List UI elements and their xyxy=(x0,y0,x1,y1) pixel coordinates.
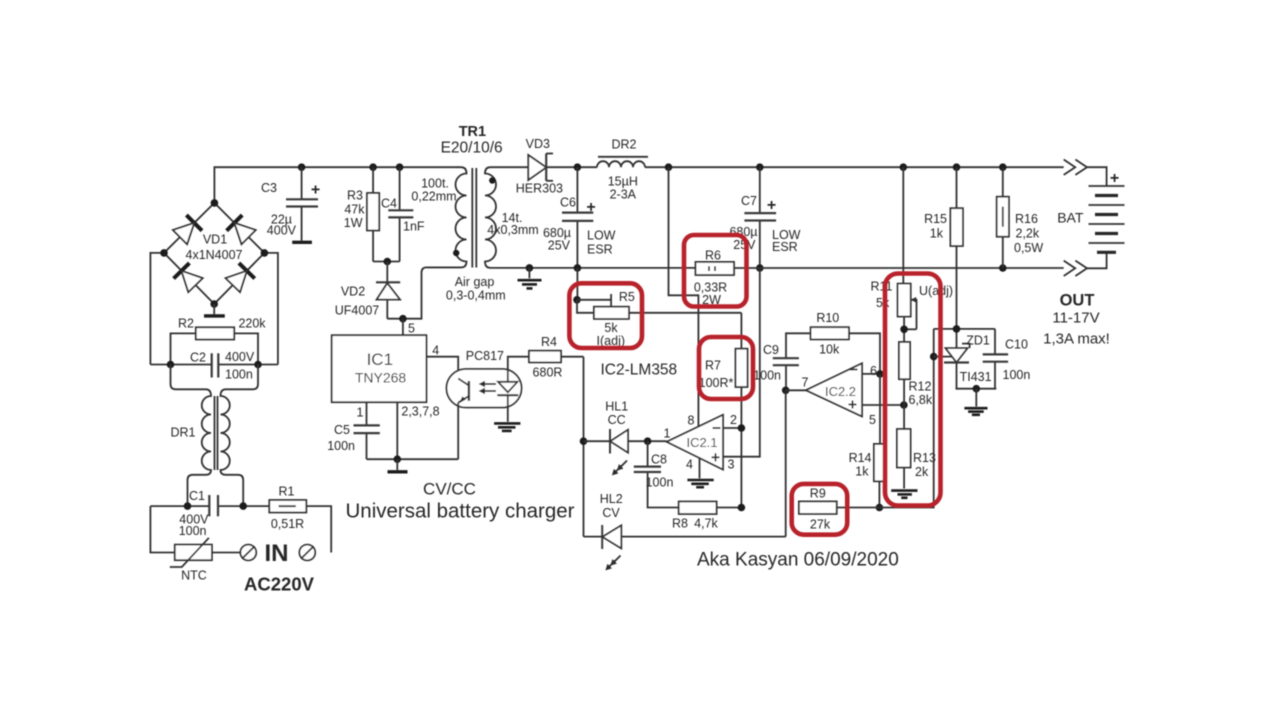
label TR1 xyxy=(441,124,503,157)
resistor R14 1k xyxy=(849,374,885,511)
resistor R9 27k xyxy=(799,487,880,532)
shunt resistor R6 xyxy=(694,249,734,308)
svg-text:NTC: NTC xyxy=(181,569,207,583)
IC IC1 TNY268 xyxy=(332,335,440,419)
ground IC2.1 pin4 xyxy=(686,458,714,488)
red highlight box R5 xyxy=(569,283,642,348)
svg-text:5: 5 xyxy=(869,413,876,427)
svg-text:Air gap: Air gap xyxy=(455,275,495,289)
label IN AC220V xyxy=(244,540,315,595)
svg-text:R11: R11 xyxy=(871,280,893,294)
svg-text:R9: R9 xyxy=(810,487,826,501)
svg-text:6,8k: 6,8k xyxy=(909,393,933,407)
svg-text:HER303: HER303 xyxy=(516,182,563,196)
op-amp IC2.1 xyxy=(664,415,723,470)
transformer TR1 secondary xyxy=(485,167,696,268)
svg-text:ESR: ESR xyxy=(587,243,613,257)
wire supply jog to IC2.1 pin8 xyxy=(669,167,699,427)
svg-text:IC2.2: IC2.2 xyxy=(825,384,856,399)
svg-text:C5: C5 xyxy=(334,423,350,437)
svg-text:C2: C2 xyxy=(190,351,206,365)
svg-text:R13: R13 xyxy=(913,451,936,465)
input terminal right xyxy=(299,545,315,561)
ground R13 xyxy=(891,491,917,498)
wire IC2.1 pin2 xyxy=(723,413,745,432)
wire IC2.2 pin7 output xyxy=(782,387,806,537)
svg-text:+: + xyxy=(1110,170,1119,187)
resistor R12 6,8k xyxy=(899,342,933,429)
transformer TR1 core xyxy=(472,168,476,268)
op-amp IC2.2 xyxy=(802,363,877,427)
svg-text:DR2: DR2 xyxy=(611,138,636,152)
svg-text:2k: 2k xyxy=(915,465,929,479)
capacitor C2 xyxy=(150,350,278,382)
resistor R16 xyxy=(997,167,1044,268)
svg-text:8: 8 xyxy=(688,414,695,428)
svg-text:1: 1 xyxy=(357,406,364,420)
svg-text:R8: R8 xyxy=(672,517,688,531)
svg-text:R15: R15 xyxy=(924,212,947,226)
wire IC2.2 pin6 xyxy=(862,370,884,378)
output arrows top xyxy=(1064,160,1107,187)
svg-text:R2: R2 xyxy=(178,317,194,331)
wire left AC loop xyxy=(150,506,174,552)
capacitor C8 xyxy=(634,441,679,507)
wire IC2.1 pin3 sense xyxy=(723,268,760,472)
svg-text:3: 3 xyxy=(728,458,735,472)
label CV/CC xyxy=(345,480,574,523)
svg-text:5k: 5k xyxy=(604,321,618,335)
svg-text:Aka Kasyan 06/09/2020: Aka Kasyan 06/09/2020 xyxy=(697,550,899,571)
svg-text:BAT: BAT xyxy=(1057,210,1084,226)
svg-text:220k: 220k xyxy=(238,317,266,331)
svg-text:LOW: LOW xyxy=(587,229,616,243)
output arrows bottom xyxy=(1064,252,1107,276)
svg-text:25V: 25V xyxy=(548,239,571,253)
label Aka Kasyan xyxy=(697,550,899,571)
svg-text:+: + xyxy=(767,197,776,214)
diode VD2 UF4007 xyxy=(335,262,400,319)
capacitor C1 xyxy=(150,489,269,538)
wire TL431 cathode node xyxy=(934,246,995,348)
capacitor C4 xyxy=(381,167,425,261)
capacitor C9 xyxy=(753,333,810,390)
svg-text:400V: 400V xyxy=(225,350,255,364)
svg-text:ZD1: ZD1 xyxy=(966,334,990,348)
LED HL1 CC xyxy=(580,357,667,537)
svg-text:4: 4 xyxy=(432,344,439,358)
svg-text:1: 1 xyxy=(664,427,671,441)
resistor R2 xyxy=(171,317,267,365)
wire IC2.2 pin5 xyxy=(862,401,908,409)
svg-text:U(adj): U(adj) xyxy=(919,284,953,298)
svg-text:C10: C10 xyxy=(1005,338,1028,352)
wire top rail right xyxy=(645,163,1064,171)
svg-text:1k: 1k xyxy=(855,465,869,479)
svg-text:2,2k: 2,2k xyxy=(1016,227,1040,241)
label air gap xyxy=(446,275,506,303)
svg-text:CV/CC: CV/CC xyxy=(423,480,476,499)
ground TI431 xyxy=(964,389,987,415)
svg-text:Universal battery charger: Universal battery charger xyxy=(345,500,574,523)
svg-text:C3: C3 xyxy=(261,181,277,195)
svg-text:100n: 100n xyxy=(1003,368,1031,382)
svg-text:400V: 400V xyxy=(267,224,297,238)
svg-text:100t.: 100t. xyxy=(421,177,449,191)
svg-text:15µH: 15µH xyxy=(608,175,638,189)
capacitor C3 xyxy=(261,167,320,242)
svg-text:R3: R3 xyxy=(347,189,363,203)
svg-text:0,22mm: 0,22mm xyxy=(411,190,456,204)
svg-text:C8: C8 xyxy=(651,453,667,467)
svg-text:R4: R4 xyxy=(541,335,557,349)
svg-text:27k: 27k xyxy=(810,518,831,532)
resistor R8 4,7k xyxy=(672,502,745,531)
red highlight box R7 xyxy=(699,337,753,399)
wire VD2 to IC1 pin5 and transformer return xyxy=(387,267,461,335)
potentiometer R11 U(adj) xyxy=(871,167,954,342)
svg-text:E20/10/6: E20/10/6 xyxy=(441,140,503,157)
svg-text:R10: R10 xyxy=(816,311,839,325)
svg-text:VD2: VD2 xyxy=(341,285,365,299)
svg-text:C6: C6 xyxy=(560,196,576,210)
ground optocoupler LED xyxy=(494,395,520,431)
svg-text:6: 6 xyxy=(870,364,877,378)
svg-text:100n: 100n xyxy=(753,369,781,383)
wire IC1 ground row xyxy=(367,402,459,472)
wire bottom rail right xyxy=(734,264,1064,272)
svg-text:2,3,7,8: 2,3,7,8 xyxy=(401,405,439,419)
svg-text:4x1N4007: 4x1N4007 xyxy=(186,248,243,262)
svg-text:HL1: HL1 xyxy=(605,400,628,414)
capacitor C6 xyxy=(543,163,616,271)
svg-text:100n: 100n xyxy=(327,439,355,453)
resistor R4 680R xyxy=(508,335,584,382)
svg-text:VD3: VD3 xyxy=(526,137,550,151)
svg-text:CC: CC xyxy=(608,413,626,427)
resistor R13 2k xyxy=(897,429,936,489)
svg-text:C4: C4 xyxy=(381,197,397,211)
svg-text:100n: 100n xyxy=(646,476,674,490)
svg-text:1W: 1W xyxy=(344,216,363,230)
transformer TR1 primary xyxy=(411,167,466,267)
red highlight box R6 xyxy=(684,235,747,307)
svg-text:C1: C1 xyxy=(189,489,205,503)
svg-text:R12: R12 xyxy=(909,380,932,394)
svg-text:5: 5 xyxy=(408,322,415,336)
battery BAT xyxy=(1057,170,1124,252)
input terminal left xyxy=(240,545,256,561)
shunt regulator ZD1 TI431 xyxy=(944,334,996,393)
svg-text:1k: 1k xyxy=(930,227,944,241)
svg-text:VD1: VD1 xyxy=(203,233,227,247)
svg-text:100n: 100n xyxy=(225,368,253,382)
red highlight box R11 R12 R13 xyxy=(885,274,941,506)
capacitor C7 xyxy=(729,167,800,272)
svg-text:TNY268: TNY268 xyxy=(355,370,407,386)
common-mode choke DR1 xyxy=(170,365,258,507)
red highlight box R9 xyxy=(792,484,848,535)
capacitor C10 xyxy=(983,329,1031,389)
svg-text:0,5W: 0,5W xyxy=(1014,241,1043,255)
svg-text:AC220V: AC220V xyxy=(244,574,315,595)
bridge rectifier VD1 4x1N4007 xyxy=(150,199,278,364)
thermistor NTC xyxy=(170,538,241,583)
svg-text:R16: R16 xyxy=(1015,212,1038,226)
svg-text:IN: IN xyxy=(265,540,289,567)
svg-text:4x0,3mm: 4x0,3mm xyxy=(487,223,538,237)
resistor R1 xyxy=(269,485,331,553)
svg-text:100R*: 100R* xyxy=(699,376,734,390)
svg-text:7: 7 xyxy=(802,376,809,390)
svg-text:R14: R14 xyxy=(849,451,872,465)
svg-text:C7: C7 xyxy=(741,194,757,208)
svg-text:47k: 47k xyxy=(344,203,365,217)
svg-text:+: + xyxy=(586,199,595,216)
svg-text:HL2: HL2 xyxy=(600,492,623,506)
potentiometer R5 5k I(adj) xyxy=(573,268,741,348)
svg-text:10k: 10k xyxy=(819,343,840,357)
resistor R7 100R* xyxy=(699,313,748,508)
svg-text:IC2.1: IC2.1 xyxy=(686,435,717,450)
svg-text:R5: R5 xyxy=(619,290,635,304)
svg-text:4: 4 xyxy=(686,458,693,472)
svg-text:CV: CV xyxy=(602,506,620,520)
svg-text:0,51R: 0,51R xyxy=(271,517,304,531)
svg-text:R1: R1 xyxy=(279,485,295,499)
svg-text:+: + xyxy=(311,182,320,199)
ground secondary xyxy=(518,264,542,288)
wire IC1 pin4 to optocoupler xyxy=(426,344,458,379)
svg-text:1,3A max!: 1,3A max! xyxy=(1043,331,1110,348)
svg-text:DR1: DR1 xyxy=(170,426,195,440)
diode VD3 HER303 xyxy=(516,137,597,196)
svg-text:11-17V: 11-17V xyxy=(1052,310,1099,327)
svg-text:100n: 100n xyxy=(179,524,207,538)
svg-text:IC2-LM358: IC2-LM358 xyxy=(601,362,678,379)
label OUT xyxy=(1043,292,1110,348)
svg-text:UF4007: UF4007 xyxy=(335,304,380,318)
capacitor C5 xyxy=(327,402,380,459)
svg-text:TI431: TI431 xyxy=(960,370,992,384)
svg-text:680R: 680R xyxy=(533,366,563,380)
wire TL431 ref feedback xyxy=(879,329,953,508)
svg-text:OUT: OUT xyxy=(1060,292,1095,310)
svg-text:2-3A: 2-3A xyxy=(610,188,637,202)
svg-text:2: 2 xyxy=(730,413,737,427)
svg-text:4,7k: 4,7k xyxy=(694,517,718,531)
resistor R15 xyxy=(924,167,963,246)
svg-text:0,3-0,4mm: 0,3-0,4mm xyxy=(446,289,506,303)
optocoupler PC817 xyxy=(447,349,522,459)
svg-text:ESR: ESR xyxy=(772,240,798,254)
svg-text:1nF: 1nF xyxy=(403,220,425,234)
svg-text:C9: C9 xyxy=(763,343,779,357)
wire R3-C4 junction xyxy=(373,258,400,266)
svg-text:IC1: IC1 xyxy=(367,350,393,369)
svg-text:R7: R7 xyxy=(705,359,721,373)
svg-text:R6: R6 xyxy=(705,249,721,263)
resistor R3 xyxy=(344,167,379,261)
LED HL2 CV xyxy=(584,492,786,570)
inductor DR2 xyxy=(597,138,648,202)
resistor R10 10k xyxy=(811,311,880,374)
label IC2-LM358 xyxy=(601,362,678,379)
svg-text:PC817: PC817 xyxy=(466,349,504,363)
wire top rail left xyxy=(214,163,457,203)
svg-text:TR1: TR1 xyxy=(459,124,486,140)
